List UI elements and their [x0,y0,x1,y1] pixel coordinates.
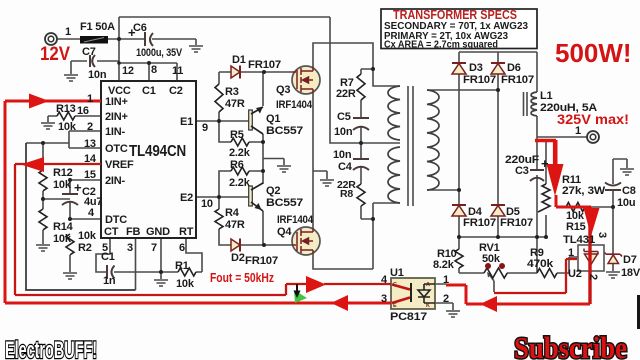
svg-text:500W!: 500W! [555,38,632,68]
svg-text:2IN+: 2IN+ [105,111,128,123]
svg-text:DTC: DTC [105,214,127,226]
svg-text:12V: 12V [40,44,70,65]
svg-text:FR107: FR107 [501,74,534,86]
svg-text:2IN-: 2IN- [105,175,126,187]
svg-text:FB: FB [126,226,141,238]
svg-text:Q2: Q2 [266,185,280,197]
svg-text:Cx AREA = 2.7cm squared: Cx AREA = 2.7cm squared [384,38,498,50]
svg-text:FR107: FR107 [248,59,281,71]
svg-text:Subscribe: Subscribe [514,330,627,360]
svg-text:2.2k: 2.2k [229,147,251,159]
svg-text:50k: 50k [482,253,501,265]
svg-text:VREF: VREF [105,159,134,171]
svg-text:E2: E2 [180,192,193,204]
svg-text:10k: 10k [176,278,195,290]
svg-text:1IN+: 1IN+ [105,96,128,108]
svg-text:E: E [393,303,397,309]
svg-text:+: + [128,25,136,40]
svg-text:1n: 1n [103,275,116,287]
svg-text:A: A [426,282,430,288]
svg-text:R2: R2 [78,242,92,254]
svg-text:GND: GND [146,226,170,238]
svg-text:F1 50A: F1 50A [80,21,115,33]
svg-text:R15: R15 [566,221,586,233]
svg-text:8.2k: 8.2k [433,259,455,271]
svg-text:TL494CN: TL494CN [129,143,186,160]
svg-text:2: 2 [87,121,93,133]
svg-text:D3: D3 [469,62,483,74]
svg-text:C5: C5 [337,111,351,123]
svg-text:OTC: OTC [105,143,128,155]
svg-text:1: 1 [65,26,71,38]
svg-text:IRF1404: IRF1404 [276,99,313,111]
svg-text:C4: C4 [338,161,353,173]
svg-text:K: K [426,303,430,309]
svg-text:R6: R6 [230,159,244,171]
svg-text:10k: 10k [53,179,72,191]
svg-text:R4: R4 [225,207,240,219]
svg-text:C7: C7 [82,46,96,58]
svg-text:9: 9 [202,122,208,134]
svg-text:FR107: FR107 [463,217,496,229]
svg-text:R14: R14 [53,221,74,233]
svg-text:10n: 10n [334,126,353,138]
svg-text:1IN-: 1IN- [105,126,126,138]
svg-text:2.2k: 2.2k [229,177,251,189]
svg-text:7: 7 [151,242,157,254]
svg-text:C1: C1 [142,85,156,97]
svg-text:Q1: Q1 [266,113,280,125]
svg-text:C2: C2 [169,85,183,97]
svg-text:15: 15 [84,169,96,181]
svg-text:PC817: PC817 [390,311,427,323]
svg-text:C8: C8 [622,185,636,197]
svg-text:22R: 22R [336,88,356,100]
svg-text:U2: U2 [568,268,582,280]
svg-text:BC557: BC557 [266,197,303,209]
svg-text:325V max!: 325V max! [557,111,629,127]
svg-text:CT: CT [104,226,119,238]
svg-text:D2: D2 [231,252,245,264]
svg-text:FR107: FR107 [463,74,496,86]
svg-text:4u7: 4u7 [84,196,102,208]
svg-text:2: 2 [443,293,449,305]
svg-text:BC557: BC557 [266,125,303,137]
svg-text:R12: R12 [53,167,73,179]
svg-text:R1: R1 [175,260,189,272]
svg-text:D1: D1 [232,54,246,66]
svg-text:8: 8 [151,64,157,76]
svg-text:1: 1 [87,93,93,105]
svg-text:3: 3 [127,242,133,254]
svg-text:3: 3 [596,232,608,238]
svg-text:10: 10 [201,198,213,210]
svg-text:1000u, 35V: 1000u, 35V [136,47,183,59]
svg-text:13: 13 [84,138,96,150]
svg-text:R5: R5 [230,129,244,141]
svg-text:Q3: Q3 [276,84,290,96]
svg-text:Q4: Q4 [277,226,292,238]
svg-text:D7: D7 [623,254,637,266]
svg-text:ElectroBUFF!: ElectroBUFF! [5,337,97,360]
svg-text:10n: 10n [333,149,352,161]
svg-text:RT: RT [179,226,194,238]
svg-text:+: + [74,180,82,195]
svg-text:1: 1 [568,247,574,259]
svg-text:L1: L1 [540,90,553,102]
svg-text:U1: U1 [390,267,404,279]
svg-text:10k: 10k [78,230,97,242]
svg-text:E1: E1 [180,116,193,128]
svg-text:27k, 3W: 27k, 3W [562,185,606,197]
svg-text:12: 12 [122,65,134,77]
svg-text:10u: 10u [617,197,635,209]
svg-text:3: 3 [381,293,387,305]
svg-text:D6: D6 [507,62,521,74]
svg-text:R8: R8 [340,188,353,200]
svg-text:11: 11 [172,65,183,77]
svg-text:10k: 10k [58,121,77,133]
svg-text:+: + [541,156,549,171]
svg-text:FR107: FR107 [245,255,278,267]
svg-text:6: 6 [179,242,185,254]
svg-text:16: 16 [77,105,89,117]
svg-text:18V: 18V [621,267,640,279]
svg-text:10k: 10k [53,233,72,245]
svg-text:FR107: FR107 [500,217,533,229]
svg-text:TL431: TL431 [563,234,595,246]
svg-text:47R: 47R [225,219,245,231]
svg-text:47R: 47R [225,98,245,110]
svg-text:IRF1404: IRF1404 [277,214,314,226]
svg-text:1: 1 [443,274,449,286]
svg-text:470k: 470k [527,258,554,270]
svg-text:Fout = 50kHz: Fout = 50kHz [210,271,274,285]
svg-text:C1: C1 [101,251,115,263]
svg-text:14: 14 [84,153,97,165]
svg-text:C: C [393,282,397,288]
svg-text:R13: R13 [56,103,76,115]
svg-text:R3: R3 [225,86,239,98]
svg-text:C3: C3 [515,165,529,177]
svg-text:2: 2 [587,274,599,280]
svg-text:10n: 10n [88,69,107,81]
